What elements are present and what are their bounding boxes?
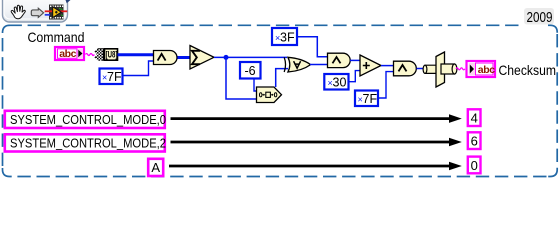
svg-text:6: 6 — [471, 134, 478, 149]
svg-text:3F: 3F — [280, 31, 295, 45]
svg-text:A: A — [151, 160, 160, 175]
svg-text:Checksum: Checksum — [499, 62, 557, 78]
svg-text:Command: Command — [28, 29, 85, 45]
svg-text:4: 4 — [471, 111, 478, 126]
svg-text:7F: 7F — [363, 92, 378, 106]
svg-text:30: 30 — [333, 76, 347, 90]
svg-text:SYSTEM_CONTROL_MODE,2: SYSTEM_CONTROL_MODE,2 — [10, 136, 166, 151]
svg-text:-6: -6 — [244, 64, 255, 78]
svg-text:abc: abc — [59, 48, 76, 60]
svg-text:7F: 7F — [107, 70, 122, 84]
svg-text:2009: 2009 — [527, 9, 553, 26]
svg-text:SYSTEM_CONTROL_MODE,0: SYSTEM_CONTROL_MODE,0 — [10, 112, 166, 127]
svg-text:0: 0 — [471, 158, 478, 173]
svg-text:abc: abc — [478, 64, 495, 76]
svg-text:[U8]: [U8] — [106, 49, 118, 60]
